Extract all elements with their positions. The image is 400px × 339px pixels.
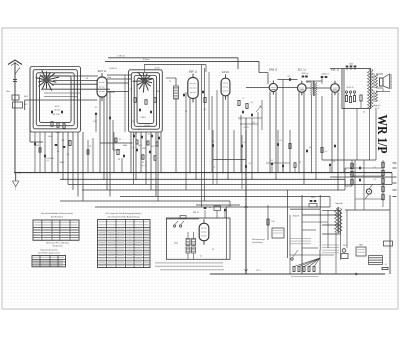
svg-text:0,1: 0,1 bbox=[204, 109, 207, 111]
svg-text:26: 26 bbox=[130, 89, 132, 91]
svg-text:bei entsprechender Ausfuehrung: bei entsprechender Ausfuehrung bbox=[108, 215, 140, 218]
svg-text:ECL 11: ECL 11 bbox=[298, 69, 307, 72]
svg-text:8000 W: 8000 W bbox=[293, 216, 299, 218]
svg-text:20: 20 bbox=[363, 112, 365, 114]
svg-text:41: 41 bbox=[142, 162, 144, 164]
svg-text:24+2: 24+2 bbox=[138, 145, 142, 147]
svg-text:50: 50 bbox=[185, 111, 187, 113]
svg-text:4+7: 4+7 bbox=[148, 134, 151, 136]
svg-text:EBF 11: EBF 11 bbox=[189, 71, 198, 74]
svg-text:0,1: 0,1 bbox=[47, 160, 50, 162]
svg-text:36 40: 36 40 bbox=[54, 110, 60, 112]
svg-text:1: 1 bbox=[337, 142, 338, 144]
svg-text:0,1: 0,1 bbox=[280, 140, 283, 142]
svg-text:3000: 3000 bbox=[174, 243, 178, 245]
svg-text:EF 22: EF 22 bbox=[222, 71, 229, 74]
svg-text:0,1 50: 0,1 50 bbox=[144, 125, 150, 127]
svg-text:0,4 mm: 0,4 mm bbox=[143, 59, 150, 61]
svg-text:0,5: 0,5 bbox=[333, 161, 336, 163]
svg-text:50: 50 bbox=[118, 159, 120, 161]
svg-text:ECH 11: ECH 11 bbox=[98, 70, 107, 73]
svg-text:Vorderseite: Vorderseite bbox=[52, 245, 63, 248]
svg-text:Ant: Ant bbox=[6, 90, 9, 93]
svg-text:21: 21 bbox=[119, 139, 121, 141]
svg-text:0,5: 0,5 bbox=[251, 102, 254, 104]
svg-text:30: 30 bbox=[157, 91, 159, 93]
svg-text:25: 25 bbox=[95, 107, 97, 109]
svg-text:0,5: 0,5 bbox=[244, 142, 247, 144]
svg-text:x 40: x 40 bbox=[131, 147, 134, 149]
svg-text:der Roehren: der Roehren bbox=[51, 215, 64, 218]
svg-text:EM 11: EM 11 bbox=[193, 212, 200, 214]
svg-text:ECH 11: ECH 11 bbox=[109, 68, 117, 70]
svg-text:4: 4 bbox=[242, 98, 243, 100]
svg-text:0,1: 0,1 bbox=[288, 76, 291, 78]
svg-text:2: 2 bbox=[239, 119, 240, 121]
svg-text:40 41 42: 40 41 42 bbox=[347, 87, 354, 89]
svg-text:27: 27 bbox=[169, 81, 171, 83]
svg-text:0,1: 0,1 bbox=[253, 122, 256, 124]
svg-text:1: 1 bbox=[363, 163, 364, 165]
svg-text:34 37: 34 37 bbox=[54, 106, 60, 108]
svg-text:5000 cm: 5000 cm bbox=[301, 73, 309, 75]
svg-text:4000: 4000 bbox=[311, 197, 315, 199]
svg-text:0,1: 0,1 bbox=[271, 160, 274, 162]
svg-text:+4000 cm: +4000 cm bbox=[321, 74, 330, 76]
svg-text:0,5: 0,5 bbox=[374, 179, 377, 181]
svg-text:1,78 mm: 1,78 mm bbox=[117, 55, 125, 57]
svg-text:EAB 11: EAB 11 bbox=[269, 69, 278, 72]
svg-text:Der Lage der Verdrahtungspunkt: Der Lage der Verdrahtungspunkte(n) bbox=[106, 212, 142, 215]
svg-text:Netzspannungs-: Netzspannungs- bbox=[252, 238, 265, 241]
svg-text:0,1: 0,1 bbox=[227, 206, 230, 208]
svg-text:3000: 3000 bbox=[123, 145, 127, 147]
svg-text:20: 20 bbox=[138, 129, 140, 131]
svg-text:0,1: 0,1 bbox=[200, 256, 202, 258]
svg-text:Abgleich: Abgleich bbox=[374, 104, 381, 107]
svg-text:Sockelschaltbilder (Unteransic: Sockelschaltbilder (Unteransicht) bbox=[41, 212, 73, 215]
svg-text:0,1 W: 0,1 W bbox=[155, 67, 160, 69]
svg-text:40 41: 40 41 bbox=[343, 245, 347, 247]
svg-text:10: 10 bbox=[209, 207, 211, 209]
svg-text:0,2: 0,2 bbox=[325, 151, 328, 153]
svg-text:bei Fehlern (gemessen): bei Fehlern (gemessen) bbox=[38, 252, 60, 255]
svg-text:50: 50 bbox=[309, 147, 311, 149]
svg-text:3 = 3: 3 = 3 bbox=[141, 165, 147, 168]
svg-text:2: 2 bbox=[346, 169, 347, 171]
svg-text:0,1: 0,1 bbox=[249, 163, 252, 165]
svg-text:EBL 11: EBL 11 bbox=[331, 69, 340, 72]
svg-text:25: 25 bbox=[212, 249, 214, 251]
svg-text:Umschaltung: Umschaltung bbox=[252, 241, 263, 244]
svg-text:2000: 2000 bbox=[142, 148, 146, 150]
svg-text:4V 5 W: 4V 5 W bbox=[53, 114, 60, 116]
svg-text:WR 1/P: WR 1/P bbox=[375, 115, 390, 154]
svg-text:Reparaturhinweise: Reparaturhinweise bbox=[40, 249, 58, 252]
svg-text:Bohrung / HF u.Oeffnung: Bohrung / HF u.Oeffnung bbox=[46, 243, 68, 245]
svg-text:5000: 5000 bbox=[349, 64, 353, 66]
svg-text:70: 70 bbox=[299, 162, 301, 164]
svg-text:25: 25 bbox=[89, 146, 91, 148]
svg-text:Netztrafo: Netztrafo bbox=[335, 202, 342, 205]
svg-text:39 37: 39 37 bbox=[151, 146, 156, 148]
svg-text:0,1: 0,1 bbox=[385, 264, 387, 266]
svg-text:150: 150 bbox=[271, 221, 274, 223]
